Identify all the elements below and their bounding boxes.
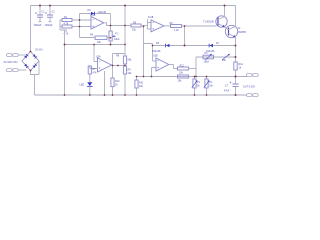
wire current sense row y57 bbox=[196, 57, 236, 77]
wire output plus row y76.5 bbox=[137, 76, 248, 78]
wire feedback x112.5 bbox=[113, 54, 126, 79]
svg-text:D1-D4: D1-D4 bbox=[36, 49, 44, 52]
connector OUT terminal plus bbox=[247, 74, 259, 77]
wire vertical x143.5 bbox=[143, 27, 145, 77]
op-amp IC1B bbox=[148, 16, 164, 32]
svg-text:1N4148: 1N4148 bbox=[152, 50, 161, 53]
svg-text:T2: T2 bbox=[238, 27, 241, 30]
svg-text:R12: R12 bbox=[180, 64, 185, 67]
svg-text:P2: P2 bbox=[209, 81, 213, 84]
LED bbox=[80, 82, 93, 95]
svg-text:1.2k: 1.2k bbox=[174, 29, 179, 32]
svg-text:10k: 10k bbox=[179, 71, 184, 74]
svg-text:D5: D5 bbox=[88, 9, 92, 12]
svg-text:47k: 47k bbox=[93, 72, 98, 75]
wire left vertical from rail to bridge bbox=[30, 6, 32, 52]
wire rail drop x125 bbox=[124, 6, 126, 57]
svg-text:10k: 10k bbox=[132, 29, 137, 32]
svg-text:R14: R14 bbox=[239, 63, 244, 66]
wire op-amp3 supply pin bbox=[104, 71, 106, 95]
wire R1 R2 left join down to bottom rail bbox=[60, 20, 65, 95]
svg-text:56k: 56k bbox=[128, 58, 133, 61]
resistor R9b (lower feedback divider) bbox=[123, 66, 132, 95]
svg-text:IC1B: IC1B bbox=[148, 16, 154, 19]
potentiometer P3 bbox=[203, 52, 214, 64]
wire top positive rail bbox=[31, 5, 236, 7]
svg-text:T1 BD139: T1 BD139 bbox=[203, 21, 214, 24]
svg-text:10kA: 10kA bbox=[204, 61, 210, 64]
svg-text:2k: 2k bbox=[115, 84, 118, 87]
capacitor C1 bbox=[34, 6, 46, 27]
wire ref to op-amp3 inverting input bbox=[94, 45, 98, 62]
op-amp IC2B input wires bbox=[152, 61, 157, 77]
wire IC1B input stubs bbox=[148, 19, 152, 29]
op-amp IC2B bbox=[153, 55, 169, 71]
resistor R7 bbox=[88, 66, 97, 82]
bridge rectifier D1-D4 bbox=[22, 49, 43, 71]
svg-text:10k: 10k bbox=[139, 85, 144, 88]
svg-text:10kA: 10kA bbox=[114, 38, 120, 41]
svg-text:10k: 10k bbox=[222, 59, 227, 62]
svg-text:AC MAX 25V: AC MAX 25V bbox=[4, 61, 18, 64]
connector AC input terminal 2 bbox=[7, 69, 27, 72]
resistor R8 bbox=[116, 54, 132, 64]
svg-text:10k: 10k bbox=[128, 72, 133, 75]
svg-text:10k: 10k bbox=[97, 41, 102, 44]
wire op-amp3 output bbox=[112, 65, 126, 67]
connector OUT terminal minus bbox=[247, 94, 259, 97]
resistor R1 bbox=[60, 16, 91, 26]
svg-text:C2: C2 bbox=[52, 10, 56, 13]
transistor T2 2N3055 bbox=[225, 6, 247, 38]
capacitor C2 bbox=[45, 6, 56, 27]
resistor R2 bbox=[60, 25, 91, 35]
svg-text:D6: D6 bbox=[156, 42, 160, 45]
svg-text:47uF: 47uF bbox=[224, 90, 230, 93]
svg-text:OUT 0-30V: OUT 0-30V bbox=[243, 85, 255, 88]
svg-text:1N4148: 1N4148 bbox=[98, 11, 107, 14]
resistor R10 bbox=[111, 78, 120, 95]
resistor R14 bbox=[234, 62, 244, 77]
wire bottom negative rail bbox=[35, 94, 248, 96]
svg-text:R6: R6 bbox=[90, 33, 94, 36]
potentiometer P2 bbox=[192, 77, 201, 96]
wire bridge bottom to ground rail bbox=[31, 61, 40, 95]
svg-text:5k: 5k bbox=[197, 85, 200, 88]
resistor R9 bbox=[170, 22, 217, 32]
wire IC2B output to R12 bbox=[169, 65, 178, 69]
wire IC1B output bbox=[164, 25, 171, 27]
svg-text:U2B: U2B bbox=[153, 55, 158, 58]
diode D6 1N4148 bbox=[152, 42, 170, 53]
svg-text:P1: P1 bbox=[197, 81, 201, 84]
capacitor C7 bbox=[224, 77, 239, 96]
op-amp IC2A bbox=[96, 56, 112, 72]
resistor R12 bbox=[178, 64, 197, 74]
potentiometer P1 bbox=[109, 26, 120, 45]
junction dots bbox=[30, 5, 237, 96]
resistor R11 bbox=[135, 77, 144, 96]
wire jog to x152.5 bbox=[144, 44, 153, 62]
transistor T1 BD139 bbox=[203, 6, 227, 28]
potentiometer P4 wiper bbox=[222, 54, 230, 62]
label OUT 0-30V bbox=[243, 85, 255, 88]
wire T2 emitter down bbox=[235, 37, 237, 62]
svg-text:R10: R10 bbox=[115, 80, 120, 83]
resistor R6 bbox=[80, 33, 111, 44]
svg-text:R8: R8 bbox=[116, 54, 120, 57]
connector AC input terminal 1 bbox=[7, 54, 27, 57]
diode D5 1N4148 bbox=[80, 9, 111, 25]
potentiometer P1b bbox=[204, 77, 214, 96]
svg-text:LED: LED bbox=[80, 84, 85, 87]
label AC MAX 25V bbox=[4, 61, 18, 64]
wire base node down to diode row bbox=[184, 26, 186, 46]
svg-text:U2A: U2A bbox=[96, 56, 101, 59]
wire inverting feedback vertical x79.5 bbox=[79, 14, 81, 38]
resistor R5 bbox=[131, 21, 148, 31]
svg-text:IC1A: IC1A bbox=[90, 14, 96, 17]
svg-text:C1: C1 bbox=[42, 10, 46, 13]
svg-text:10k: 10k bbox=[209, 85, 214, 88]
svg-text:1000uF: 1000uF bbox=[45, 24, 54, 27]
wire diode row y45.5 bbox=[153, 45, 236, 47]
svg-text:D7: D7 bbox=[216, 42, 220, 45]
op-amp IC1A bbox=[90, 14, 104, 29]
wire reference row y44.5 bbox=[65, 44, 126, 46]
svg-text:2N3055: 2N3055 bbox=[238, 31, 247, 34]
diode D7 1N4148 bbox=[206, 42, 220, 53]
wire op-amp1 output bbox=[104, 23, 131, 26]
svg-text:1k: 1k bbox=[239, 67, 242, 70]
svg-text:1000uF: 1000uF bbox=[34, 24, 43, 27]
svg-text:10k: 10k bbox=[178, 79, 183, 82]
svg-text:R11: R11 bbox=[139, 82, 144, 85]
svg-text:C7: C7 bbox=[225, 85, 229, 88]
svg-text:R9: R9 bbox=[128, 68, 132, 71]
svg-text:P 1: P 1 bbox=[115, 33, 119, 36]
resistor R13 bbox=[178, 75, 189, 82]
